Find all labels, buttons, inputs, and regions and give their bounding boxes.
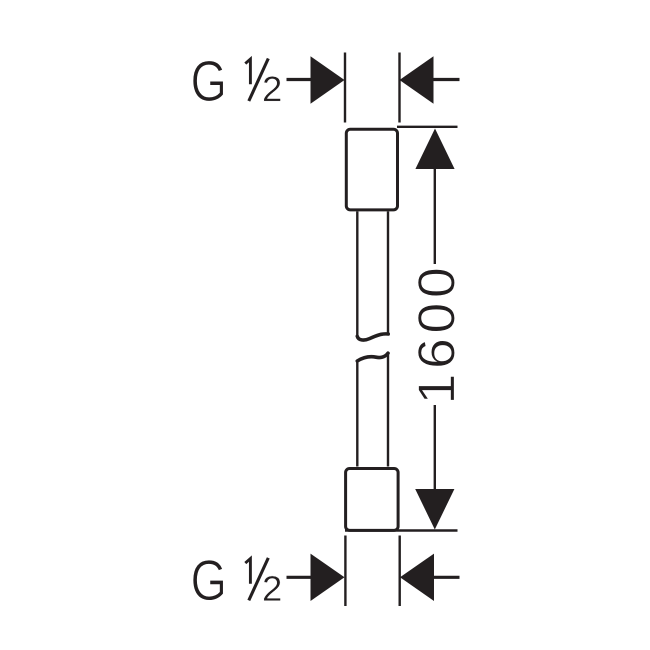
label G 1/2 top: letter G [193,61,223,102]
hose break squiggle upper [357,334,388,340]
label G 1/2 bottom: fraction denominator 2 [264,576,281,601]
label G 1/2 top: fraction denominator 2 [264,76,281,101]
1600 dimension bottom extension line [345,529,458,531]
top hose connector nut [346,129,397,210]
bottom dimension arrow right [400,554,434,601]
label G 1/2 bottom: fraction numerator 1 [245,559,250,584]
bottom extension line left [344,536,346,607]
hose tube upper left wall [356,212,358,339]
bottom dimension arrow left [311,554,345,601]
top dimension leader line right [434,78,460,81]
bottom extension line right [399,536,401,607]
top dimension leader line left [287,78,312,81]
1600 dimension line lower segment [434,405,436,490]
label G 1/2 top: fraction numerator 1 [245,59,250,84]
top dimension arrow left [311,56,345,103]
label G 1/2 bottom: fraction slash [249,558,268,601]
1600 dimension top extension line [397,126,458,128]
bottom dimension leader line right [434,576,460,579]
1600 dimension arrow up [415,129,454,170]
bottom dimension leader line left [287,576,312,579]
label G 1/2 top: fraction slash [249,59,268,102]
1600 dimension line upper segment [434,168,436,264]
label 1600 [418,269,455,400]
top dimension arrow right [400,56,434,103]
top extension line right [398,53,400,123]
hose tube upper right wall [387,212,389,334]
hose break squiggle lower [357,353,388,361]
hose tube lower left wall [356,361,358,467]
hose tube lower right wall [387,355,389,467]
label G 1/2 bottom: letter G [193,560,223,601]
top extension line left [344,53,346,123]
1600 dimension arrow down [415,489,454,530]
bottom hose connector nut [346,469,399,531]
